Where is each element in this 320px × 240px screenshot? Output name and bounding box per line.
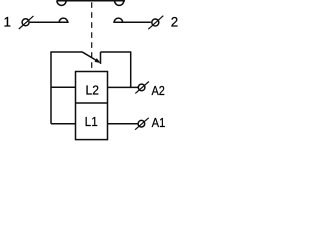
wire left rail to L2 (51, 86, 76, 88)
terminal 1 slash (19, 16, 34, 29)
wire right fixed contact to terminal 2 (113, 21, 151, 23)
bridge contact left arc (57, 1, 66, 6)
trip switch right lead (101, 51, 131, 53)
coil box divider (76, 102, 108, 104)
wire left rail to L1 (51, 123, 76, 125)
left rail vertical wire (50, 52, 52, 124)
terminal 1 circle (22, 19, 29, 26)
wire L2 to terminal A2 (108, 86, 139, 88)
terminal 2 slash (148, 16, 163, 30)
right fixed contact hump (114, 18, 122, 22)
svg-text:A1: A1 (152, 115, 166, 130)
svg-text:1: 1 (3, 15, 10, 30)
trip switch blade (82, 52, 99, 62)
terminal A2 slash (135, 82, 149, 94)
svg-text:A2: A2 (152, 83, 166, 98)
terminal 2 circle (152, 19, 159, 26)
svg-text:L1: L1 (85, 115, 98, 130)
left fixed contact hump (59, 18, 67, 22)
trip switch left lead (50, 51, 82, 53)
trip switch fixed post vertical (100, 52, 102, 64)
coil box outline (76, 72, 108, 140)
dashed actuator link (91, 2, 93, 71)
terminal A2 circle (138, 84, 145, 91)
wire L1 to terminal A1 (108, 123, 138, 125)
wire terminal 1 to left fixed contact (30, 21, 69, 23)
svg-text:2: 2 (171, 15, 178, 30)
svg-text:L2: L2 (85, 83, 98, 97)
bridge bar of main contact (57, 0, 126, 2)
wire switch to A2 node (130, 51, 132, 87)
bridge contact right arc (115, 1, 124, 6)
trip switch arrowhead (95, 58, 101, 63)
terminal A1 slash (135, 118, 149, 130)
terminal A1 circle (138, 120, 145, 127)
